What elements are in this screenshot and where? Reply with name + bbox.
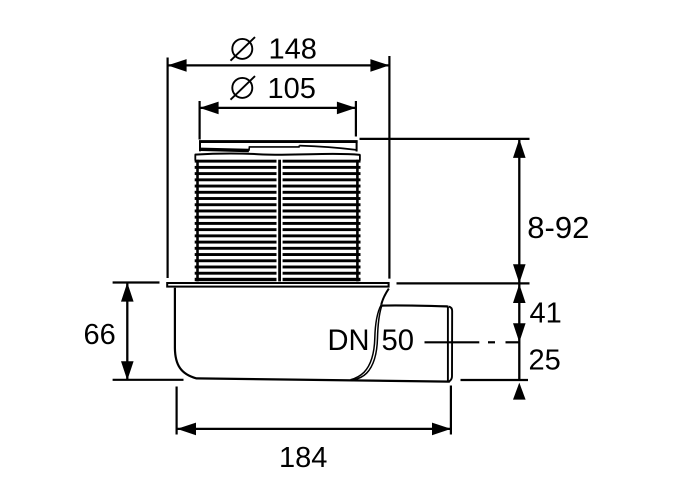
dimension d105 right arrow (337, 102, 356, 115)
outlet centerline dashed (425, 341, 520, 343)
grate cap left edge (199, 141, 201, 152)
dimension 184 left extension line (176, 387, 178, 435)
top reference line (grate top level) (360, 138, 530, 140)
dimension 184 line (177, 428, 451, 430)
trap body right wall curve outer (354, 306, 382, 380)
riser collar tier left edge (194, 154, 196, 160)
svg-text:DN: DN (328, 324, 370, 357)
riser collar tier right edge (359, 154, 361, 160)
outlet pipe end face inner line (447, 307, 449, 381)
outlet pipe end face outer line (449, 307, 453, 382)
dimension 66 bottom tick (113, 379, 184, 381)
riser thread center divider (278, 160, 281, 282)
svg-text:8-92: 8-92 (527, 210, 589, 245)
grate cap right edge (356, 141, 358, 152)
bottom reference line (outlet axis bottom level) (461, 379, 529, 381)
dimension d148 line (168, 64, 390, 66)
dimension d148 right extension line (388, 56, 390, 279)
label diameter symbol 148 (231, 37, 256, 61)
ribbed riser threads (195, 160, 361, 281)
dimension 66 bottom arrow (121, 361, 134, 380)
right dimension chain line (518, 140, 520, 381)
dimension 66 top arrow (121, 283, 134, 302)
dimension 184 right extension line (450, 386, 452, 435)
trap body outline (175, 288, 450, 382)
svg-text:25: 25 (529, 345, 561, 377)
dimension 184 left arrow (177, 423, 196, 436)
dimension d105 left arrow (200, 102, 219, 115)
dimension d148 left extension line (167, 58, 169, 279)
outlet pipe top edge (382, 305, 449, 306)
dimension 25 bottom arrow (513, 383, 526, 400)
dimension 184 right arrow (432, 423, 451, 436)
dimension d148 right arrow (370, 59, 389, 72)
dimension 66 line (126, 283, 128, 381)
floor flange (167, 283, 388, 287)
riser collar tier top wavy edge (195, 154, 360, 155)
dimension d105 line (200, 107, 356, 109)
dimension 41 top arrow (513, 284, 526, 303)
grate cap inner jagged profile (201, 146, 356, 151)
mid reference line (floor flange level) (397, 282, 530, 284)
svg-text:41: 41 (530, 298, 562, 330)
svg-text:105: 105 (268, 73, 316, 105)
riser thread left edge (196, 160, 199, 282)
trap body right wall curve inner (351, 305, 382, 380)
dimension 41 bottom arrow (513, 323, 526, 342)
svg-text:50: 50 (382, 324, 415, 357)
svg-text:184: 184 (279, 442, 327, 474)
svg-text:66: 66 (84, 319, 116, 351)
dimension d148 left arrow (168, 59, 187, 72)
dimension 8-92 top arrow (513, 139, 526, 158)
riser thread right edge (356, 160, 359, 282)
grate cap top bar (199, 140, 358, 143)
dimension d105 right extension line (355, 101, 357, 137)
dimension 8-92 bottom arrow (513, 264, 526, 283)
trap body right wall upper edge (381, 289, 389, 305)
label diameter symbol 105 (231, 76, 256, 100)
svg-text:148: 148 (269, 34, 317, 66)
dimension 66 top tick (113, 281, 160, 283)
dimension d105 left extension line (199, 101, 201, 140)
